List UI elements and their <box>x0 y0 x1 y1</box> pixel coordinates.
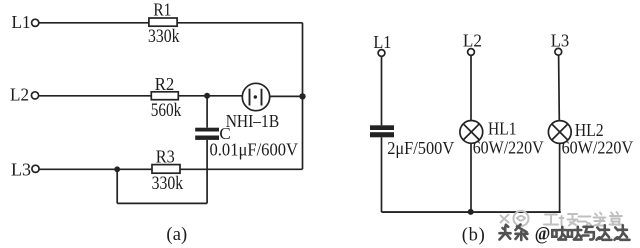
resistor R1 <box>149 18 177 26</box>
svg-text:60W/220V: 60W/220V <box>562 137 634 157</box>
wire right rail vertical <box>302 23 304 170</box>
capacitor C2 plate top <box>370 125 394 130</box>
svg-text:R2: R2 <box>155 74 175 94</box>
svg-text:L2: L2 <box>463 31 482 51</box>
svg-text:HL1: HL1 <box>488 119 517 139</box>
wire lamp HL1 to bottom rail <box>470 143 472 212</box>
svg-text:330k: 330k <box>148 26 180 47</box>
junction node R2-C <box>204 93 210 99</box>
watermark char yu <box>583 227 594 240</box>
wire capacitor C2 to bottom rail <box>381 137 383 212</box>
wire L3 to lamp HL2 <box>558 55 561 121</box>
capacitor C2 plate bottom <box>370 132 394 137</box>
lamp HL2 cross stroke 2 <box>552 124 568 140</box>
capacitor C plate bottom <box>195 136 219 140</box>
wire lamp HL2 to bottom rail <box>559 143 561 212</box>
wire R2 to node <box>178 95 242 97</box>
wire L3 to R3 <box>39 168 152 170</box>
watermark char da1 <box>552 227 566 240</box>
wire L2 to lamp HL1 <box>470 55 472 120</box>
node L1 terminal (b) <box>378 50 385 57</box>
neon lamp U1 NHI-1B <box>242 83 269 110</box>
svg-text:0.01μF/600V: 0.01μF/600V <box>210 139 299 159</box>
svg-text:560k: 560k <box>151 100 182 121</box>
watermark text toutiao handle char tou <box>500 225 528 241</box>
lamp HL1 cross stroke 1 <box>463 124 479 140</box>
watermark logo circle light <box>500 211 529 226</box>
svg-text:@: @ <box>535 224 551 245</box>
resistor R3 <box>152 165 180 174</box>
wire loop bottom horizontal <box>117 202 207 204</box>
node L3 terminal (b) <box>555 48 562 55</box>
svg-text:L3: L3 <box>551 30 570 50</box>
junction node L3-loop <box>114 166 120 172</box>
watermark char da4 <box>615 225 630 240</box>
watermark char da3 <box>597 225 612 240</box>
junction node neon-rail <box>299 93 305 99</box>
capacitor C plate top <box>195 128 219 132</box>
lamp HL2 <box>548 121 571 144</box>
node L2 terminal (a) <box>31 92 38 99</box>
node L3 terminal (a) <box>32 165 39 172</box>
svg-text:NHI–1B: NHI–1B <box>226 111 280 131</box>
wire L1 to R1 <box>39 22 149 24</box>
lamp HL2 cross stroke 1 <box>552 124 568 140</box>
wire capacitor C to loop bottom <box>206 140 208 204</box>
svg-text:L3: L3 <box>11 160 31 180</box>
wire L1 to capacitor C2 <box>381 56 383 125</box>
lamp HL1 <box>460 120 483 143</box>
svg-text:L1: L1 <box>12 12 31 32</box>
watermark char tiao <box>516 225 528 241</box>
wire node to capacitor C <box>206 96 208 128</box>
svg-text:60W/220V: 60W/220V <box>473 137 544 157</box>
svg-text:(a): (a) <box>166 225 187 245</box>
svg-text:(b): (b) <box>462 225 485 245</box>
wire R1 to right rail <box>177 22 302 24</box>
watermark char da2 <box>568 227 582 240</box>
neon lamp electrode left <box>249 89 251 106</box>
wire L2 to R2 <box>39 95 152 97</box>
svg-text:2μF/500V: 2μF/500V <box>387 138 454 158</box>
wire neon to right rail <box>270 95 303 97</box>
neon lamp center dot <box>254 95 257 98</box>
neon lamp electrode right <box>261 89 263 106</box>
lamp HL1 cross stroke 2 <box>463 124 479 140</box>
node L1 terminal (a) <box>32 19 39 26</box>
svg-text:R3: R3 <box>156 146 175 166</box>
watermark text gongkong yunxuetang <box>544 212 623 226</box>
wire R3 to right rail <box>180 168 303 170</box>
svg-text:330k: 330k <box>152 173 184 194</box>
wire bottom rail (b) <box>382 211 561 213</box>
junction node HL1-rail <box>468 209 474 215</box>
resistor R2 <box>151 92 178 100</box>
svg-text:L1: L1 <box>373 32 391 52</box>
wire loop left vertical <box>116 169 118 203</box>
svg-text:L2: L2 <box>10 85 29 105</box>
svg-text:R1: R1 <box>153 0 171 20</box>
node L2 terminal (b) <box>468 49 475 56</box>
